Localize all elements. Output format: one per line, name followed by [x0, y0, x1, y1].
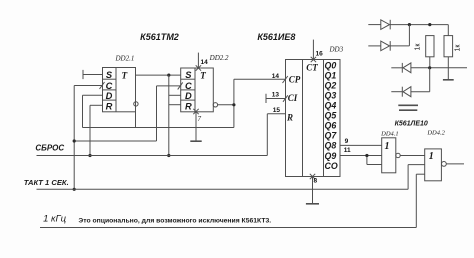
- flip-flop DD2.2 box: [181, 68, 214, 112]
- svg-text:D: D: [106, 91, 113, 101]
- diode VD4: [391, 68, 429, 97]
- svg-text:CP: CP: [289, 74, 301, 84]
- power pin X mark 14: [196, 65, 201, 70]
- letters S C D R DD2.1: [106, 70, 113, 111]
- pin 16 stub: [312, 40, 314, 60]
- wire TAKT line: [37, 165, 425, 190]
- wire CI stub with terminal bar: [266, 94, 286, 103]
- svg-text:9: 9: [345, 138, 349, 145]
- ground under DD2.2 pin 7: [190, 112, 201, 141]
- equals mark: [398, 105, 418, 110]
- svg-text:C: C: [106, 81, 113, 91]
- svg-text:R: R: [106, 102, 113, 112]
- wire 1kHz line: [40, 174, 425, 227]
- op DD2.2 inversion circle (Q-bar output): [213, 103, 217, 107]
- junction dot Q1 branch: [167, 74, 170, 77]
- svg-text:C: C: [185, 81, 192, 91]
- svg-text:16: 16: [316, 51, 324, 58]
- ground under DD3 pin 8: [306, 177, 319, 204]
- power pin X mark 16: [311, 57, 316, 62]
- svg-text:R: R: [286, 113, 293, 123]
- svg-text:S: S: [106, 70, 113, 80]
- svg-text:Q1: Q1: [325, 70, 337, 80]
- flip-flop DD2.1 box: [103, 68, 136, 112]
- svg-text:1: 1: [385, 141, 390, 152]
- junction dot R1/SBROS: [88, 154, 91, 157]
- svg-text:CT: CT: [306, 63, 318, 73]
- svg-text:14: 14: [272, 73, 280, 80]
- resistor R2: [444, 36, 453, 80]
- diode VD3: [391, 63, 467, 73]
- wire D1 input from Q-bar2 net: [83, 79, 286, 127]
- svg-text:11: 11: [344, 147, 351, 154]
- svg-text:DD2.2: DD2.2: [209, 54, 229, 62]
- svg-text:8: 8: [314, 178, 318, 185]
- svg-text:К561ТМ2: К561ТМ2: [140, 32, 179, 42]
- diode VD2: [368, 25, 409, 51]
- svg-text:Q8: Q8: [325, 141, 337, 151]
- wire Q-bar1 to D-line: [135, 106, 137, 127]
- svg-text:15: 15: [273, 107, 281, 114]
- wire Q1 to S2 row: [136, 74, 181, 76]
- node TAKT branch to C2: [74, 86, 181, 141]
- svg-text:1к: 1к: [415, 43, 422, 51]
- svg-text:К561ИЕ8: К561ИЕ8: [257, 32, 295, 42]
- wire Q9 output pin 11: [340, 155, 382, 164]
- letters S C D R DD2.2: [185, 70, 192, 111]
- power pin X mark 7: [193, 109, 198, 114]
- pin 14 stub DD2.2: [197, 53, 199, 68]
- svg-text:Q3: Q3: [325, 90, 337, 100]
- wire SBROS line: [37, 114, 286, 156]
- wire Q-bar2 to CP node: [218, 104, 234, 106]
- junction dot at SBROS: [167, 154, 170, 157]
- svg-text:D: D: [185, 91, 192, 101]
- svg-text:DD4.1: DD4.1: [380, 131, 399, 138]
- svg-text:1 кГц: 1 кГц: [43, 213, 67, 224]
- svg-text:Q0: Q0: [325, 60, 337, 70]
- op DD2.1 inversion circle (Q-bar output): [134, 102, 138, 106]
- dynamic input slash C1: [100, 82, 105, 89]
- svg-text:14: 14: [201, 59, 209, 66]
- svg-text:Q4: Q4: [325, 101, 337, 111]
- junction dot VD1/VD2: [408, 23, 411, 26]
- gate DD4.1 box: [382, 138, 396, 173]
- svg-text:CO: CO: [325, 161, 338, 171]
- svg-text:T: T: [200, 71, 206, 81]
- svg-text:Q6: Q6: [325, 121, 337, 131]
- wire Q8 output pin 9: [340, 144, 382, 146]
- ground under R2: [443, 79, 454, 81]
- svg-text:Q5: Q5: [325, 111, 337, 121]
- wire DD4.2 output: [446, 163, 464, 165]
- svg-text:Q2: Q2: [325, 80, 337, 90]
- svg-text:ТАКТ 1 СЕК.: ТАКТ 1 СЕК.: [24, 178, 69, 187]
- junction dot Q9 branch: [365, 154, 368, 157]
- svg-text:DD4.2: DD4.2: [426, 129, 445, 136]
- junction dot TAKT/C1: [73, 188, 76, 191]
- svg-text:CI: CI: [288, 93, 298, 103]
- svg-text:T: T: [121, 71, 127, 81]
- junction dot VD3/VD4/R1: [428, 66, 431, 69]
- svg-text:Это опционально, для возможног: Это опционально, для возможного исключен…: [78, 217, 271, 224]
- svg-text:S: S: [185, 70, 192, 80]
- op DD4.2 inversion circle: [442, 162, 447, 167]
- svg-text:DD3: DD3: [328, 46, 343, 54]
- svg-text:1: 1: [429, 151, 434, 162]
- dynamic input slash C2: [178, 82, 183, 89]
- junction dot VD1/R1: [428, 23, 431, 26]
- resistor R1: [426, 36, 434, 68]
- wire vertical Q1/D2/R2/SBROS: [169, 75, 181, 155]
- counter DD3 box: [286, 60, 341, 177]
- labels Q0-Q9 CO: [325, 60, 338, 171]
- op DD4.1 inversion circle: [396, 153, 400, 157]
- wire DD4.1 output to DD4.2: [400, 154, 425, 156]
- dynamic input slash CP: [283, 76, 288, 83]
- wire C1 input from TAKT: [74, 86, 102, 190]
- wire R1 input from SBROS: [90, 105, 103, 155]
- svg-text:К561ЛЕ10: К561ЛЕ10: [395, 121, 428, 128]
- power pin X mark 8: [310, 174, 315, 179]
- diode VD1: [368, 20, 448, 36]
- svg-text:R: R: [185, 102, 192, 112]
- wire S1 stub with terminal bar: [83, 70, 103, 79]
- svg-text:DD2.1: DD2.1: [114, 54, 134, 62]
- svg-text:Q7: Q7: [325, 131, 338, 141]
- junction dot Q-bar2 node: [232, 103, 235, 106]
- dynamic input slash CI: [283, 95, 288, 102]
- svg-text:Q9: Q9: [325, 151, 337, 161]
- svg-text:СБРОС: СБРОС: [35, 144, 64, 153]
- svg-text:1к: 1к: [455, 44, 462, 52]
- junction dot TAKT/C2 branch: [73, 139, 76, 142]
- gate DD4.2 box: [425, 149, 442, 181]
- svg-text:13: 13: [272, 92, 280, 99]
- svg-text:7: 7: [198, 115, 202, 123]
